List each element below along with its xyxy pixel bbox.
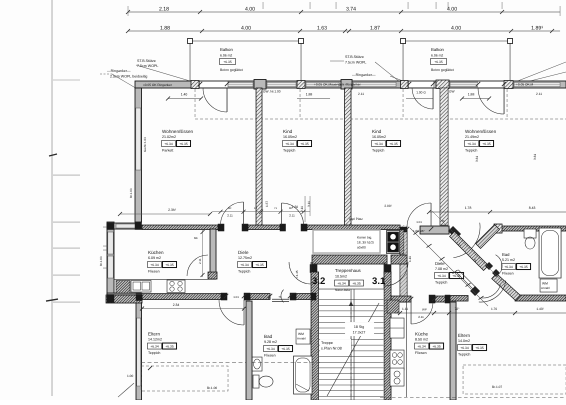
svg-text:1.88: 1.88 <box>160 25 170 31</box>
svg-text:+6.34: +6.34 <box>374 142 383 146</box>
svg-text:4.00: 4.00 <box>451 25 461 31</box>
svg-text:Balkon: Balkon <box>220 47 233 52</box>
svg-text:1.63: 1.63 <box>317 25 327 31</box>
svg-text:+6.34: +6.34 <box>150 345 159 349</box>
svg-text:+6.35: +6.35 <box>281 347 290 351</box>
svg-text:+6.34: +6.34 <box>285 142 294 146</box>
svg-text:Beton geglättet: Beton geglättet <box>220 68 243 72</box>
svg-text:3.11: 3.11 <box>307 201 311 207</box>
svg-text:2.00¹: 2.00¹ <box>384 204 391 208</box>
svg-text:WM: WM <box>542 282 548 286</box>
svg-text:2.11: 2.11 <box>358 92 364 96</box>
svg-text:14.12m2: 14.12m2 <box>148 338 162 342</box>
svg-text:1.78: 1.78 <box>465 206 472 210</box>
svg-text:+6.35: +6.35 <box>432 345 441 349</box>
svg-text:1.50: 1.50 <box>292 205 298 209</box>
svg-text:+6.34: +6.34 <box>467 142 476 146</box>
svg-text:1.88: 1.88 <box>468 93 475 97</box>
svg-text:+6.34: +6.34 <box>417 345 426 349</box>
svg-text:GW: GW <box>449 90 455 94</box>
svg-text:2.11: 2.11 <box>227 214 233 218</box>
svg-text:Eltern: Eltern <box>458 333 470 338</box>
svg-text:1.57: 1.57 <box>265 201 269 207</box>
svg-text:3.1: 3.1 <box>372 276 386 287</box>
svg-text:+6.34: +6.34 <box>437 274 446 278</box>
svg-text:Treppe: Treppe <box>321 341 333 345</box>
svg-text:+6.35: +6.35 <box>389 142 398 146</box>
svg-text:+6.34: +6.34 <box>504 265 513 269</box>
svg-text:+6.35: +6.35 <box>434 60 443 64</box>
svg-text:72°: 72° <box>455 307 461 311</box>
svg-text:6.06 m2: 6.06 m2 <box>431 54 443 58</box>
svg-text:WM: WM <box>298 332 304 336</box>
svg-text:Teppich: Teppich <box>148 351 160 355</box>
svg-text:2.5cm WOPL beidseitig: 2.5cm WOPL beidseitig <box>110 75 147 79</box>
svg-text:17.3x27: 17.3x27 <box>353 331 366 335</box>
svg-text:+6.34: +6.34 <box>460 346 469 350</box>
svg-text:a0x80: a0x80 <box>357 246 366 250</box>
svg-text:1.76: 1.76 <box>491 307 497 311</box>
svg-text:+0.05 OK.M: +0.05 OK.M <box>516 82 533 86</box>
svg-text:+6.35: +6.35 <box>165 345 174 349</box>
svg-text:3.61: 3.61 <box>533 154 537 160</box>
svg-text:MF: MF <box>194 236 198 240</box>
svg-text:WP: WP <box>422 308 427 312</box>
svg-text:»0.05 OK Ringanker: »0.05 OK Ringanker <box>143 83 173 87</box>
svg-text:Anrahl: Anrahl <box>297 337 306 341</box>
svg-text:21.02m2: 21.02m2 <box>162 135 176 139</box>
svg-text:+6.35: +6.35 <box>179 142 188 146</box>
svg-text:3.74: 3.74 <box>346 6 356 12</box>
svg-text:Gw.Nr.1.03: Gw.Nr.1.03 <box>143 137 147 152</box>
svg-text:1.00 WP: 1.00 WP <box>413 229 425 233</box>
svg-text:ST.B.Stütze: ST.B.Stütze <box>345 55 364 59</box>
svg-text:Bad: Bad <box>502 252 510 257</box>
svg-text:1.89¹: 1.89¹ <box>531 25 543 31</box>
svg-text:—Ringanker—: —Ringanker— <box>107 69 131 73</box>
svg-text:—Ringanker—: —Ringanker— <box>352 73 376 77</box>
svg-text:1.40: 1.40 <box>181 93 188 97</box>
svg-text:Küche: Küche <box>415 332 428 337</box>
svg-text:10.5m2: 10.5m2 <box>335 275 347 279</box>
svg-text:6.06 m2: 6.06 m2 <box>220 54 232 58</box>
svg-text:6.09 m2: 6.09 m2 <box>148 256 161 260</box>
svg-text:18 Stg: 18 Stg <box>354 325 364 329</box>
svg-text:+6.34: +6.34 <box>164 142 173 146</box>
svg-text:1.00: 1.00 <box>127 374 133 378</box>
svg-text:18, 39 h1/2t: 18, 39 h1/2t <box>357 241 374 245</box>
svg-text:+0.05 OK.Mauerwerk+Ringanker: +0.05 OK.Mauerwerk+Ringanker <box>314 82 362 86</box>
svg-text:2.11: 2.11 <box>418 315 424 319</box>
svg-text:2.18: 2.18 <box>159 6 169 12</box>
svg-text:+6.35: +6.35 <box>255 263 264 267</box>
svg-text:14.0m2: 14.0m2 <box>458 339 470 343</box>
svg-text:GW .Nr.1.00: GW .Nr.1.00 <box>263 90 281 94</box>
svg-text:7.08 m2: 7.08 m2 <box>435 267 448 271</box>
svg-text:Fliesen: Fliesen <box>264 354 276 358</box>
svg-text:1.43¹: 1.43¹ <box>536 307 543 311</box>
svg-text:+6.34: +6.34 <box>240 263 249 267</box>
svg-text:+6.34: +6.34 <box>266 347 275 351</box>
svg-text:5.21 m2: 5.21 m2 <box>502 258 515 262</box>
svg-text:+6.35: +6.35 <box>519 265 528 269</box>
svg-text:8.50 m2: 8.50 m2 <box>415 338 428 342</box>
svg-text:12.75m2: 12.75m2 <box>238 256 252 260</box>
svg-text:+6.34: +6.34 <box>337 282 346 286</box>
svg-text:7.5cm WOPL: 7.5cm WOPL <box>345 61 366 65</box>
svg-text:Teppich: Teppich <box>458 353 470 357</box>
svg-text:Fliesen: Fliesen <box>415 351 427 355</box>
svg-text:ST.B.Stütze: ST.B.Stütze <box>137 59 156 63</box>
svg-text:3.61: 3.61 <box>475 156 479 162</box>
svg-text:1.11: 1.11 <box>408 256 412 262</box>
svg-text:2.11: 2.11 <box>300 206 304 212</box>
svg-text:1.00 G: 1.00 G <box>416 91 426 95</box>
svg-text:+4.45: +4.45 <box>295 270 299 278</box>
svg-text:Natur-bela: Natur-bela <box>335 288 350 292</box>
svg-text:Anrahl: Anrahl <box>541 286 550 290</box>
svg-text:kapl Platz: kapl Platz <box>349 217 363 221</box>
svg-text:4.00: 4.00 <box>241 25 251 31</box>
svg-text:76: 76 <box>278 295 282 299</box>
svg-text:4.00: 4.00 <box>447 6 457 12</box>
svg-text:1.01: 1.01 <box>233 295 239 299</box>
svg-text:Kind: Kind <box>372 129 382 134</box>
svg-text:Br.1.03: Br.1.03 <box>99 256 103 266</box>
svg-text:Diele: Diele <box>238 250 249 255</box>
svg-text:Teppich: Teppich <box>283 149 295 153</box>
svg-text:9.28 m2: 9.28 m2 <box>264 340 277 344</box>
svg-text:Parkett: Parkett <box>162 149 173 153</box>
svg-text:+6.35: +6.35 <box>475 346 484 350</box>
svg-text:21.49m2: 21.49m2 <box>465 135 479 139</box>
svg-text:Br.1.03: Br.1.03 <box>129 188 133 198</box>
svg-text:Fliesen: Fliesen <box>502 272 514 276</box>
svg-text:+6.35: +6.35 <box>165 263 174 267</box>
svg-text:1.87: 1.87 <box>370 25 380 31</box>
svg-text:s.Plan Nr.08: s.Plan Nr.08 <box>321 347 342 351</box>
svg-text:+6.35: +6.35 <box>300 142 309 146</box>
svg-text:76: 76 <box>441 219 445 223</box>
svg-text:8.43: 8.43 <box>529 206 536 210</box>
svg-text:Wohnen/Essen: Wohnen/Essen <box>162 129 194 134</box>
svg-text:2.11: 2.11 <box>289 214 295 218</box>
svg-text:Teppich: Teppich <box>372 149 384 153</box>
svg-text:Teppich: Teppich <box>238 270 250 274</box>
svg-text:Treppenhaus: Treppenhaus <box>335 268 362 273</box>
svg-text:4.00: 4.00 <box>245 6 255 12</box>
svg-text:+6.35: +6.35 <box>482 142 491 146</box>
svg-text:Fliesen: Fliesen <box>148 270 160 274</box>
svg-text:3.2: 3.2 <box>312 276 325 287</box>
svg-text:Balkon: Balkon <box>431 47 444 52</box>
svg-text:Kamin big.: Kamin big. <box>357 236 372 240</box>
svg-text:Wohnen/Essen: Wohnen/Essen <box>465 129 497 134</box>
svg-text:Teppich: Teppich <box>435 281 447 285</box>
svg-text:Küchen: Küchen <box>148 250 164 255</box>
svg-text:16.05m2: 16.05m2 <box>283 135 297 139</box>
svg-text:Beton geglättet: Beton geglättet <box>431 68 454 72</box>
svg-text:Kind: Kind <box>283 129 293 134</box>
svg-text:MF: MF <box>228 207 232 210</box>
svg-text:+6.35: +6.35 <box>223 60 232 64</box>
svg-text:2.3h¹: 2.3h¹ <box>168 208 177 212</box>
svg-text:1.88: 1.88 <box>306 93 313 97</box>
svg-text:2.34: 2.34 <box>173 303 180 307</box>
svg-text:16.05m2: 16.05m2 <box>372 135 386 139</box>
svg-text:1.01: 1.01 <box>416 220 422 224</box>
svg-text:2.11: 2.11 <box>198 258 202 264</box>
svg-text:Bad: Bad <box>264 334 273 339</box>
svg-text:1.11: 1.11 <box>402 307 408 311</box>
svg-text:Teppich: Teppich <box>465 149 477 153</box>
svg-text:2.11: 2.11 <box>536 92 542 96</box>
svg-text:+6.34: +6.34 <box>150 263 159 267</box>
svg-text:Br.1.00: Br.1.00 <box>207 386 217 390</box>
svg-text:Br.1.07: Br.1.07 <box>492 385 502 389</box>
svg-text:Eltern: Eltern <box>148 332 160 337</box>
svg-text:+6.35: +6.35 <box>352 282 361 286</box>
